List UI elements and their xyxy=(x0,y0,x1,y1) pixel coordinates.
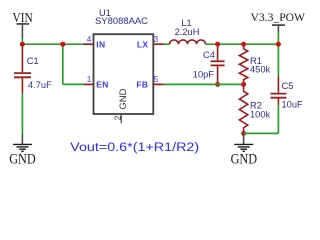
svg-text:GND: GND xyxy=(231,151,258,167)
capacitor C4 xyxy=(211,44,225,84)
wire C5 bottom xyxy=(277,105,279,133)
svg-text:GND: GND xyxy=(118,88,129,109)
capacitor C5 xyxy=(270,76,286,105)
port VIN xyxy=(13,11,33,39)
svg-text:5: 5 xyxy=(154,75,159,84)
wire V3.3 drop to C5 xyxy=(277,33,279,77)
svg-text:100k: 100k xyxy=(250,110,271,120)
wire LX to L1 xyxy=(164,43,170,45)
pin 1 EN stub xyxy=(84,83,94,85)
node R2 bottom junction xyxy=(241,131,246,136)
wire FB row xyxy=(164,83,244,85)
pin 4 IN stub xyxy=(84,43,94,45)
inductor L1 xyxy=(170,40,206,44)
ground (left) xyxy=(9,134,36,167)
svg-text:SY8088AAC: SY8088AAC xyxy=(95,16,148,26)
svg-text:10pF: 10pF xyxy=(193,70,215,80)
svg-text:450k: 450k xyxy=(250,64,271,74)
svg-text:10uF: 10uF xyxy=(282,100,304,110)
svg-text:3: 3 xyxy=(154,35,159,44)
svg-text:EN: EN xyxy=(96,80,108,90)
pin 2 GND stub xyxy=(120,115,122,124)
resistor R2 xyxy=(239,84,247,133)
svg-text:V3.3_POW: V3.3_POW xyxy=(251,10,306,24)
node C4 bottom junction xyxy=(215,82,220,87)
svg-text:IN: IN xyxy=(96,39,105,49)
svg-text:4: 4 xyxy=(87,35,92,44)
wire VIN drop xyxy=(21,39,23,45)
svg-text:2: 2 xyxy=(112,115,122,120)
svg-text:FB: FB xyxy=(136,80,148,90)
svg-text:C4: C4 xyxy=(203,50,215,60)
wire EN vertical xyxy=(62,44,64,84)
svg-text:2.2uH: 2.2uH xyxy=(175,27,200,37)
svg-text:Vout=0.6*(1+R1/R2): Vout=0.6*(1+R1/R2) xyxy=(70,142,199,154)
svg-text:C5: C5 xyxy=(282,81,294,91)
op-amp U1 (regulator SY8088AAC) body xyxy=(94,34,154,114)
wire top row left (VIN node to IN pin) xyxy=(22,43,83,45)
node EN junction xyxy=(60,42,65,47)
wire EN horizontal xyxy=(63,83,84,85)
svg-text:1: 1 xyxy=(87,75,92,84)
wire C1 to ground xyxy=(21,93,23,134)
svg-text:C1: C1 xyxy=(27,56,39,66)
resistor R1 xyxy=(239,44,247,84)
node VIN junction xyxy=(20,42,25,47)
node R1/R2/FB junction xyxy=(241,82,246,87)
capacitor C1 xyxy=(14,44,31,93)
node C4 top junction xyxy=(215,42,220,47)
wire L1 to output node xyxy=(206,43,279,45)
port V3.3_POW xyxy=(251,10,306,32)
pin 3 LX stub xyxy=(153,43,163,45)
node R1 top junction xyxy=(241,42,246,47)
svg-text:GND: GND xyxy=(9,151,36,167)
wire bottom row R2 to C5 xyxy=(244,132,279,134)
node output/port junction xyxy=(276,42,281,47)
ground (right) xyxy=(231,133,258,167)
svg-text:LX: LX xyxy=(137,39,148,49)
svg-text:4.7uF: 4.7uF xyxy=(28,80,52,90)
pin 5 FB stub xyxy=(153,83,163,85)
